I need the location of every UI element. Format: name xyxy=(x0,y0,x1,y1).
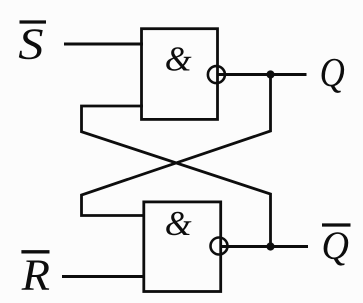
U2 output inversion bubble xyxy=(211,238,228,255)
wire: S input to gate U1 xyxy=(64,43,143,46)
svg-text:Q: Q xyxy=(320,50,345,95)
svg-text:&: & xyxy=(165,205,192,243)
wire: feedback path Q-junction to U2 upper input (vert, diagonal, vert, horiz) xyxy=(82,75,271,216)
label Q-bar (output) xyxy=(322,224,351,268)
wire: U2 output to Qbar label xyxy=(221,245,309,248)
wire: U1 output to Q label xyxy=(217,73,307,76)
U1 output inversion bubble xyxy=(208,66,225,83)
node: junction on Q wire xyxy=(266,70,274,78)
svg-text:Q: Q xyxy=(322,224,349,268)
svg-text:&: & xyxy=(165,41,192,79)
label R-bar (input R) xyxy=(21,250,50,299)
label Q (output) xyxy=(320,50,345,95)
svg-text:R: R xyxy=(21,250,50,299)
NAND gate U2 (bottom) body xyxy=(144,202,221,292)
label S-bar (input S) xyxy=(18,20,46,68)
NAND gate U1 (top) body xyxy=(142,29,218,120)
node: junction on Qbar wire xyxy=(266,242,274,250)
svg-text:S: S xyxy=(18,20,43,68)
wire: R input to gate U2 xyxy=(62,275,145,278)
wire: feedback path Qbar-junction to U1 lower input (horiz, vert, diagonal, vert) xyxy=(82,106,271,247)
